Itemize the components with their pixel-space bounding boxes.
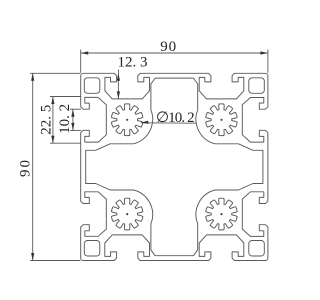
corner square hole bottom-left	[84, 241, 100, 257]
svg-text:90: 90	[17, 158, 33, 177]
svg-text:22. 5: 22. 5	[38, 105, 54, 135]
corner square hole bottom-right	[249, 241, 264, 257]
inner cavity boundary	[86, 78, 263, 256]
dimension 22.5: dimension line	[52, 97, 54, 144]
flower spline hole at (221,119)	[206, 104, 238, 136]
dimension 10.2 opening width: extension lines	[70, 108, 81, 110]
dimension 10.2: dimension line	[72, 109, 74, 130]
flower spline hole at (221,214)	[206, 198, 238, 230]
dimension 90 left: arrows	[31, 73, 34, 260]
flower spline hole at (127,119)	[111, 104, 142, 136]
svg-text:∅10. 2: ∅10. 2	[156, 110, 194, 126]
dimension 12.3: arrows	[117, 73, 120, 99]
dimension 22.5: arrows	[51, 97, 54, 144]
corner square hole top-right	[249, 78, 264, 94]
corner square hole top-left	[84, 78, 100, 94]
svg-text:10. 2: 10. 2	[57, 104, 73, 134]
leader diameter 10.2: arrow	[141, 121, 149, 124]
dimension 90 top: dimension line	[81, 52, 268, 54]
outer profile boundary with T-slots	[81, 73, 268, 260]
flower spline hole at (127,214)	[111, 198, 142, 230]
dimension 10.2: arrows	[71, 109, 74, 130]
dimension 90 top: arrows	[81, 51, 268, 54]
flower center marks	[126, 119, 128, 121]
dimension 22.5 channel width: extension lines	[50, 96, 81, 98]
dimension 90 left: dimension line	[32, 73, 34, 260]
dimension 90 top: extension lines	[80, 50, 82, 73]
dimension 90 left: extension lines	[30, 72, 80, 74]
dimension 12.3 slot depth: dimension line	[117, 70, 119, 99]
leader diameter 10.2: leader line	[141, 122, 196, 124]
svg-text:90: 90	[160, 39, 177, 55]
svg-text:12. 3: 12. 3	[118, 55, 148, 71]
